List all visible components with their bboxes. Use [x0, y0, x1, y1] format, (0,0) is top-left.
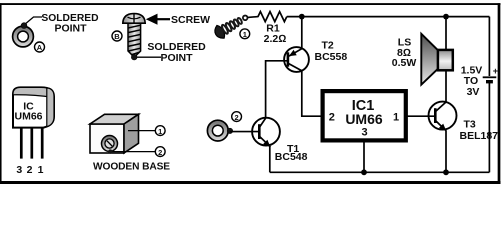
solder dot A	[21, 23, 27, 29]
package leg 3	[20, 128, 23, 159]
svg-text:UM66: UM66	[14, 111, 42, 123]
svg-text:2: 2	[158, 148, 162, 157]
T2 base bar	[287, 52, 290, 66]
T1 base bar	[258, 124, 261, 139]
wire: T3 emitter to bottom rail	[445, 131, 447, 173]
leader line to SOLDERED POINT (A)	[26, 17, 43, 24]
T3 base bar	[434, 108, 437, 123]
washer ring A	[13, 26, 34, 47]
solder dot on base washer	[108, 149, 112, 153]
T2 collector	[289, 64, 302, 71]
wire: speaker to T3 collector	[445, 71, 447, 103]
circled 1 (wooden base)	[155, 126, 165, 136]
svg-text:1: 1	[243, 30, 247, 39]
svg-text:B: B	[114, 32, 120, 41]
svg-text:2: 2	[27, 164, 33, 176]
wire: battery to bottom rail	[488, 82, 490, 173]
wire: IC1 pin 3 to bottom rail	[363, 143, 365, 173]
svg-text:3V: 3V	[467, 86, 480, 98]
battery positive plate	[483, 76, 497, 78]
svg-text:POINT: POINT	[54, 23, 87, 35]
svg-text:WOODEN BASE: WOODEN BASE	[93, 162, 170, 173]
package side shade	[47, 88, 54, 127]
loudspeaker LS magnet	[438, 50, 453, 70]
wire: T2 collector to IC1 pin 2	[302, 71, 321, 116]
T3 emitter with arrow	[436, 121, 446, 131]
wire: top rail to speaker	[445, 17, 447, 50]
junction dot R1/T2	[299, 14, 305, 20]
package leg 1	[41, 128, 44, 159]
wire: T1 emitter to bottom rail	[269, 146, 271, 172]
circled letter B	[112, 31, 122, 41]
screw B threaded body	[128, 23, 141, 57]
leader to circled 2 (wooden base)	[113, 151, 156, 153]
package top cap	[13, 87, 54, 97]
svg-text:0.5W: 0.5W	[392, 57, 417, 69]
washer ring 2	[207, 120, 228, 141]
svg-text:BEL187: BEL187	[460, 130, 499, 142]
circled 2 (near ring)	[232, 112, 242, 122]
screw B tip solder dot	[131, 54, 137, 60]
svg-text:UM66: UM66	[345, 111, 383, 127]
svg-text:1: 1	[158, 127, 162, 136]
wire: right rail down to battery	[488, 17, 490, 76]
svg-text:1: 1	[38, 164, 44, 176]
IC UM66 package body	[13, 87, 54, 127]
transistor T2 circle	[284, 47, 309, 72]
junction dot speaker	[443, 14, 449, 20]
screw 1 (diagonal fixing screw)	[212, 10, 251, 40]
svg-text:A: A	[37, 43, 43, 52]
wooden base right face	[124, 114, 139, 153]
svg-text:2: 2	[235, 113, 239, 122]
svg-text:POINT: POINT	[160, 52, 193, 64]
frame border	[0, 3, 501, 184]
circled 1 (screw)	[240, 29, 250, 39]
wire: junction to T2 emitter	[301, 17, 303, 49]
svg-text:BC548: BC548	[275, 151, 308, 163]
transistor T1 circle	[252, 118, 280, 146]
junction dot pin 3	[361, 169, 367, 175]
svg-text:+: +	[493, 66, 498, 76]
circled 2 (wooden base)	[155, 147, 165, 157]
svg-text:2.2Ω: 2.2Ω	[264, 33, 287, 45]
leader line to SOLDERED POINT (B)	[137, 56, 161, 58]
top rail wire	[287, 16, 490, 18]
package leg 2	[30, 128, 33, 159]
T1 collector diagonal	[260, 118, 266, 127]
bottom rail wire	[270, 171, 490, 173]
junction dot T3 emitter	[443, 169, 449, 175]
circled letter A	[35, 42, 45, 52]
washer on base	[102, 136, 118, 152]
leader to circled 1 (wooden base)	[128, 130, 155, 132]
svg-text:BC558: BC558	[315, 51, 348, 63]
transistor T3 circle	[429, 102, 457, 130]
battery negative plate	[486, 80, 493, 83]
wire: T2 base to T1 collector	[266, 61, 288, 118]
resistor R1	[258, 12, 287, 22]
svg-text:3: 3	[16, 164, 22, 176]
wire: ring 2 to T1 base	[230, 131, 259, 133]
svg-text:SCREW: SCREW	[171, 14, 210, 26]
wooden base top face	[90, 114, 139, 124]
arrow to screw	[146, 14, 170, 25]
wooden base front face	[90, 124, 124, 153]
IC1 UM66 box	[323, 91, 406, 140]
solder dot on ring 2	[227, 128, 232, 133]
T2 emitter with arrow (PNP)	[289, 49, 302, 56]
svg-text:T2: T2	[322, 39, 334, 51]
T1 emitter with arrow	[260, 137, 270, 147]
wire: IC1 pin 1 to T3 base	[407, 115, 436, 117]
wire: screw 1 to R1	[248, 16, 259, 19]
loudspeaker LS cone	[421, 34, 438, 85]
screw B head	[123, 14, 145, 24]
svg-text:3: 3	[361, 127, 367, 139]
T3 collector diagonal	[436, 102, 446, 111]
svg-text:2: 2	[329, 111, 335, 123]
svg-text:1: 1	[393, 111, 399, 123]
